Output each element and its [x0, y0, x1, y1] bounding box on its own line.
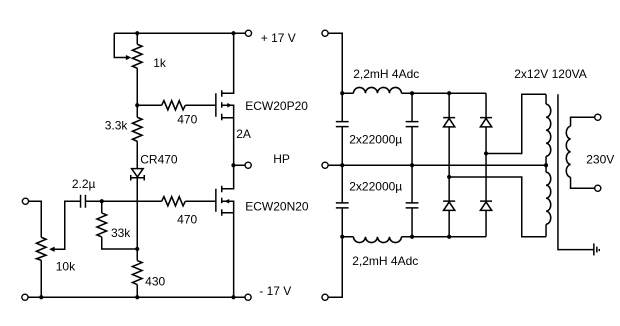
junction 33k / 430 — [135, 247, 139, 251]
capacitor C4 lower — [406, 165, 419, 237]
capacitor C1 2x22000u upper — [336, 93, 349, 165]
svg-text:430: 430 — [145, 274, 165, 288]
wire 0V mid rail — [328, 164, 546, 166]
junction 10k pot / bottom rail — [39, 295, 43, 299]
svg-text:ECW20N20: ECW20N20 — [245, 200, 309, 214]
label 33k — [111, 226, 131, 240]
resistor 3.3k — [132, 105, 142, 168]
diode D3 — [443, 177, 455, 237]
label C lower — [349, 179, 402, 193]
resistor 430 — [132, 261, 142, 298]
resistor 470 upper — [162, 101, 216, 110]
svg-text:3.3k: 3.3k — [105, 118, 129, 132]
junction top rail / 1k pot — [135, 31, 139, 35]
label L1 — [353, 67, 419, 81]
inductor L1 2,2mH — [342, 87, 486, 93]
svg-text:+ 17 V: + 17 V — [261, 31, 296, 45]
junction top rail / upper MOSFET drain — [231, 31, 235, 35]
label 3.3k — [105, 118, 129, 132]
transistor Q1 ECW20P20 — [216, 33, 234, 165]
node A junction (1k / 470 / 3.3k) — [135, 103, 139, 107]
inductor L2 2,2mH — [342, 237, 486, 243]
wire wiper to coupling cap — [55, 201, 81, 249]
junction low rail / D3 — [447, 235, 451, 239]
svg-text:CR470: CR470 — [140, 153, 178, 167]
terminal bottom left — [22, 294, 28, 300]
label 430 — [145, 274, 165, 288]
svg-text:2x12V 120VA: 2x12V 120VA — [514, 67, 587, 81]
junction 430 / bottom rail — [135, 295, 139, 299]
terminal +17V — [245, 30, 251, 36]
label 470 upper — [177, 113, 197, 127]
svg-text:2A: 2A — [236, 127, 251, 141]
wire diode to 430 (crosses gate line) — [136, 178, 138, 261]
potentiometer 10k wiper arrow — [49, 247, 55, 252]
terminal input — [22, 198, 28, 204]
svg-text:230V: 230V — [586, 152, 614, 166]
wire bottom -17V rail — [28, 296, 245, 298]
junction top rail / C2 — [410, 91, 414, 95]
junction cap / 33k / gate line — [100, 199, 104, 203]
svg-text:HP: HP — [273, 152, 290, 166]
svg-text:2x22000µ: 2x22000µ — [349, 179, 402, 193]
potentiometer 10k — [36, 237, 46, 297]
transformer T1 primary winding — [566, 117, 594, 188]
resistor 470 lower — [162, 197, 216, 206]
wire PSU + terminal to filter — [328, 33, 342, 93]
diode CR470 — [131, 169, 145, 181]
label -17V — [259, 284, 291, 298]
label 1k — [153, 56, 167, 70]
label ECW20N20 — [245, 200, 309, 214]
label HP — [273, 152, 290, 166]
svg-text:470: 470 — [177, 113, 197, 127]
wire to upper 470 — [137, 104, 161, 106]
label CR470 — [140, 153, 178, 167]
label L2 — [352, 254, 418, 268]
diode D4 — [480, 153, 492, 236]
svg-text:10k: 10k — [56, 260, 76, 274]
resistor 33k — [97, 201, 137, 249]
transistor Q2 ECW20N20 — [216, 165, 234, 297]
terminal -17V — [245, 294, 251, 300]
transformer core — [558, 94, 594, 249]
capacitor 2.2u — [81, 195, 102, 208]
svg-text:2.2µ: 2.2µ — [72, 177, 96, 191]
label 10k — [56, 260, 76, 274]
terminal mains bottom — [595, 185, 601, 191]
wire 1k pot wiper branch — [114, 33, 126, 57]
junction lower MOSFET source / bottom rail — [231, 295, 235, 299]
label 230V — [586, 152, 614, 166]
diode D2 — [480, 93, 492, 153]
transformer T1 secondary winding lower — [546, 172, 551, 237]
svg-text:1k: 1k — [153, 56, 167, 70]
junction HP output node — [231, 163, 235, 167]
capacitor C2 upper — [406, 93, 419, 165]
terminal PSU +out — [322, 30, 328, 36]
label 2.2u — [72, 177, 96, 191]
svg-text:2x22000µ: 2x22000µ — [349, 132, 402, 146]
svg-text:- 17 V: - 17 V — [259, 284, 291, 298]
junction top rail / D1 — [447, 91, 451, 95]
junction mid rail / C2 — [410, 163, 414, 167]
transformer T1 secondary winding upper — [546, 94, 551, 172]
label +17V — [261, 31, 296, 45]
svg-text:ECW20P20: ECW20P20 — [245, 99, 308, 113]
label T1 — [514, 67, 587, 81]
potentiometer 1k — [132, 33, 142, 105]
junction top rail / C1 — [340, 91, 344, 95]
wire top +17V rail — [114, 32, 245, 34]
wire AC lower to transformer — [449, 177, 546, 237]
wire PSU - terminal — [328, 237, 342, 298]
junction low rail / C4 — [410, 235, 414, 239]
wire input to 10k pot — [29, 201, 42, 237]
junction AC node right — [484, 151, 488, 155]
wire to HP terminal — [233, 164, 245, 166]
svg-text:470: 470 — [177, 212, 197, 226]
junction low rail / C3 — [340, 235, 344, 239]
svg-text:33k: 33k — [111, 226, 131, 240]
label 2A — [236, 127, 251, 141]
label 470 lower — [177, 212, 197, 226]
terminal PSU 0V — [322, 162, 328, 168]
ground earth symbol — [594, 243, 599, 255]
terminal mains top — [595, 114, 601, 120]
svg-text:2,2mH 4Adc: 2,2mH 4Adc — [353, 67, 419, 81]
svg-text:2,2mH 4Adc: 2,2mH 4Adc — [352, 254, 418, 268]
label ECW20P20 — [245, 99, 308, 113]
terminal PSU -out — [322, 294, 328, 300]
diode D1 — [443, 93, 455, 177]
potentiometer 1k wiper arrow — [126, 55, 131, 60]
label C upper — [349, 132, 402, 146]
capacitor C3 2x22000u lower — [336, 165, 349, 237]
wire AC upper to transformer — [486, 94, 546, 153]
junction mid rail / C1 — [340, 163, 344, 167]
junction center tap — [544, 163, 548, 167]
wire gate line to lower 470 — [102, 200, 162, 202]
junction AC node left — [447, 175, 451, 179]
terminal HP — [245, 162, 251, 168]
